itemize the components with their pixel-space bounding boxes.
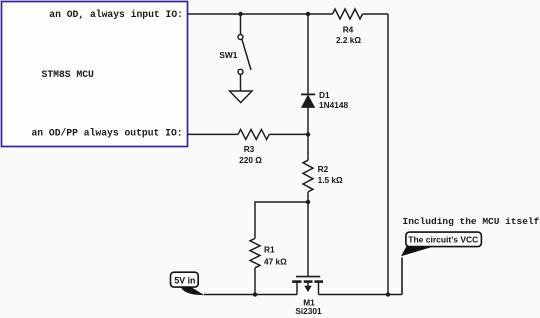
svg-text:R2: R2 [318,164,329,174]
node: junction top of D1 branch [306,12,310,16]
wire: input IO net, box to R4 left [188,13,333,15]
svg-text:STM8S MCU: STM8S MCU [42,69,95,80]
wire: R1 bottom to ground rail [254,268,256,295]
wire: D1 anode down to output net junction [307,108,309,135]
callout bubble: 5V in [171,272,205,295]
svg-text:1N4148: 1N4148 [319,100,348,110]
svg-text:R3: R3 [244,144,255,154]
svg-text:Including the MCU itself: Including the MCU itself [403,216,540,227]
svg-text:5V in: 5V in [174,276,195,286]
wire: bottom rail left (5V to source) [204,294,297,296]
node: junction R2/R1/gate [306,200,310,204]
ground [230,91,253,103]
svg-text:220 Ω: 220 Ω [239,155,262,165]
svg-text:an OD/PP always output IO:: an OD/PP always output IO: [31,127,182,138]
node: junction bottom rail / right rail [386,292,390,296]
wire: right VCC rail vertical [387,14,389,295]
svg-text:R4: R4 [343,25,354,35]
wire: gate lead down to M1 [307,202,309,277]
switch SW1 [238,35,251,75]
svg-text:D1: D1 [319,90,330,100]
resistor R2 [303,160,313,192]
wire: R2 bottom to gate junction [307,192,309,202]
wire: SW1 bottom contact to ground [240,74,242,91]
svg-text:1.5 kΩ: 1.5 kΩ [318,175,343,185]
wire: top junction down to D1 cathode [307,14,309,94]
svg-text:SW1: SW1 [219,50,237,60]
diode D1 [301,94,315,107]
svg-text:R1: R1 [264,245,275,255]
wire: junction left to R1 top [255,202,308,238]
resistor R3 [238,129,269,139]
wire: VCC bubble riser [401,258,403,295]
wire: junction down to R2 top [307,134,309,160]
wire: R3 right to junction [269,133,308,135]
wire: R4 right to VCC rail corner [363,13,389,15]
wire: output IO net, box to R3 left [188,133,238,135]
svg-text:2.2 kΩ: 2.2 kΩ [336,35,361,45]
callout bubble: The circuit's VCC [401,232,481,256]
svg-text:an OD, always input IO:: an OD, always input IO: [49,9,183,20]
wire: junction down to SW1 top contact [240,14,242,34]
node: junction top of SW1 [238,12,242,16]
transistor M1 (P-MOSFET Si2301) [292,277,323,295]
resistor R1 [250,238,260,267]
MCU STM8S box [2,2,188,147]
wire: bottom rail right (drain to VCC riser) [319,294,403,296]
node: junction D1/R3/R2 [306,132,310,136]
node: junction R1/bottom rail [253,292,257,296]
svg-text:47 kΩ: 47 kΩ [264,257,287,267]
svg-text:The circuit's VCC: The circuit's VCC [408,235,478,245]
resistor R4 [333,9,363,19]
svg-text:Si2301: Si2301 [295,306,322,316]
